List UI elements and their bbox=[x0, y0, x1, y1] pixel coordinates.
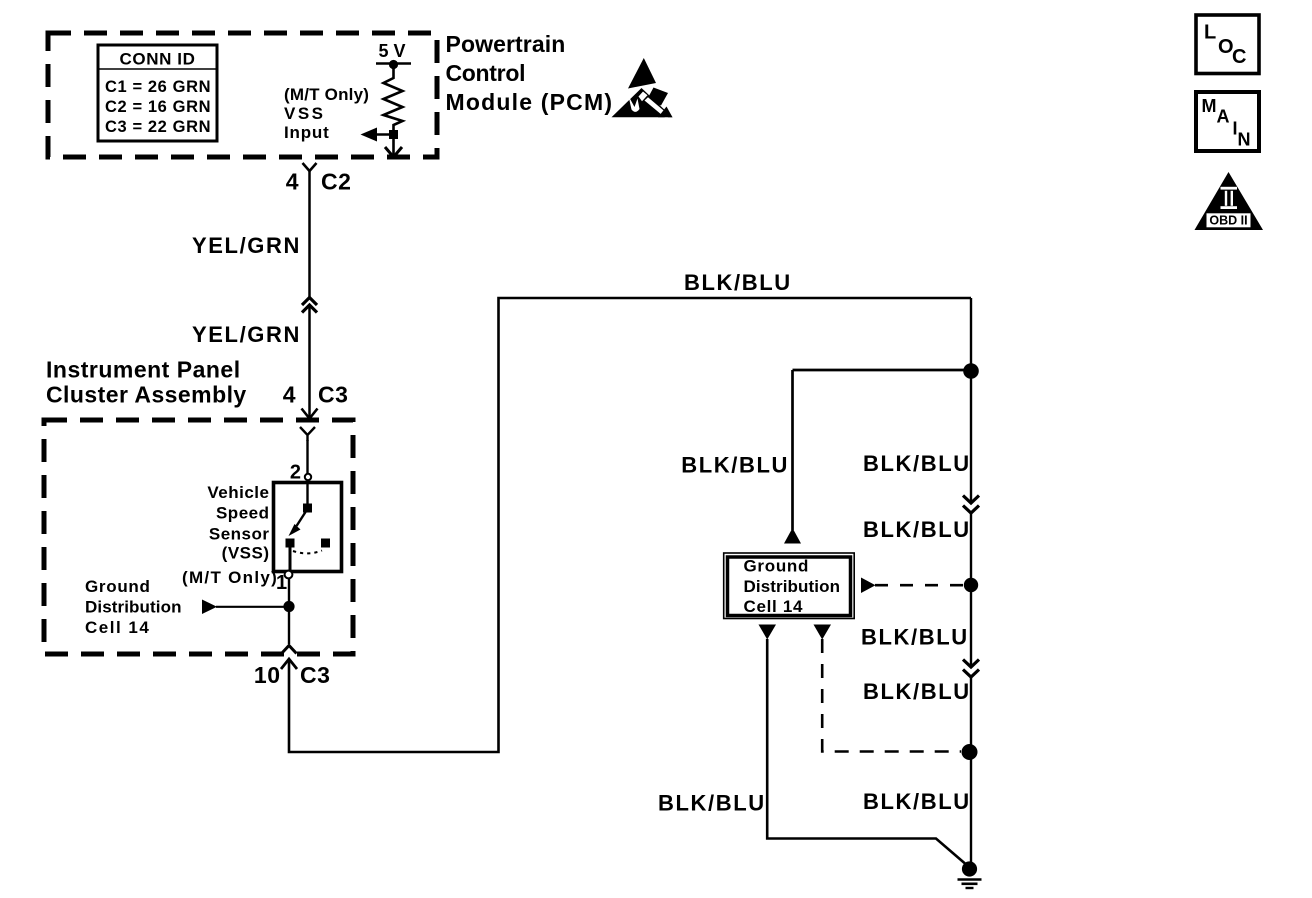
svg-text:Control: Control bbox=[446, 60, 526, 86]
junction J1 bbox=[963, 363, 979, 379]
svg-text:C2 = 16 GRN: C2 = 16 GRN bbox=[105, 98, 211, 116]
svg-text:BLK/BLU: BLK/BLU bbox=[658, 791, 766, 816]
svg-text:BLK/BLU: BLK/BLU bbox=[863, 679, 971, 704]
arrowhead up out of cluster bbox=[281, 659, 297, 669]
M/T Only VSS Input text bbox=[284, 85, 369, 142]
junction J4 bbox=[962, 744, 978, 760]
svg-text:BLK/BLU: BLK/BLU bbox=[863, 451, 971, 476]
svg-text:Vehicle: Vehicle bbox=[207, 483, 269, 502]
svg-text:L: L bbox=[1204, 22, 1216, 44]
svg-text:Sensor: Sensor bbox=[209, 525, 270, 544]
wire PCM pin4 down bbox=[308, 171, 311, 299]
pin 4 C3 connector bbox=[283, 382, 349, 408]
svg-text:(VSS): (VSS) bbox=[222, 544, 270, 563]
svg-text:OBD II: OBD II bbox=[1209, 214, 1247, 228]
inline connector break right bus (lower) bbox=[963, 660, 979, 678]
MAIN badge bbox=[1196, 92, 1259, 151]
svg-text:Instrument Panel: Instrument Panel bbox=[46, 357, 241, 383]
svg-text:BLK/BLU: BLK/BLU bbox=[861, 625, 969, 650]
Ground Distribution Cell 14 box bbox=[724, 553, 855, 619]
svg-text:A: A bbox=[1217, 107, 1230, 127]
svg-text:1: 1 bbox=[276, 572, 287, 594]
svg-text:(M/T Only): (M/T Only) bbox=[284, 85, 369, 104]
Y connector inside cluster bbox=[300, 427, 315, 441]
svg-text:C1 = 26 GRN: C1 = 26 GRN bbox=[105, 78, 211, 96]
svg-text:4: 4 bbox=[283, 382, 296, 408]
svg-text:10: 10 bbox=[254, 662, 281, 688]
pin 2 terminal circle bbox=[305, 474, 311, 480]
PCM label bbox=[446, 31, 614, 115]
wire W4 from pin10 down right and up to top BLK/BLU run bbox=[289, 298, 971, 752]
right vertical bus wire lower bbox=[970, 677, 972, 865]
junction J2 bbox=[283, 601, 294, 612]
inline connector break (chevrons up) bbox=[302, 298, 317, 313]
arrowhead into cluster (down) bbox=[302, 409, 318, 419]
OBD II badge bbox=[1195, 172, 1264, 230]
Ground Distribution Cell 14 text (cluster) bbox=[85, 577, 182, 637]
inline connector break right bus (upper) bbox=[963, 496, 979, 514]
wire to instrument cluster bbox=[308, 306, 311, 418]
VSS Input arrow bbox=[361, 128, 399, 142]
resistor R1 (VSS pull-up) bbox=[384, 66, 403, 156]
connector chevron at cluster exit bbox=[282, 646, 297, 654]
svg-text:Module (PCM): Module (PCM) bbox=[446, 89, 614, 115]
arrow from GD box to bus (dashed) bbox=[861, 578, 963, 594]
svg-text:Speed: Speed bbox=[216, 504, 270, 523]
svg-text:BLK/BLU: BLK/BLU bbox=[863, 789, 971, 814]
solid wire from left GD arrow down to ground bbox=[767, 639, 968, 867]
instrument cluster box bbox=[44, 420, 353, 654]
svg-text:C2: C2 bbox=[321, 169, 351, 195]
branch wire to ground distribution (up arrow) bbox=[784, 370, 966, 544]
svg-text:VSS: VSS bbox=[284, 104, 326, 123]
svg-text:Distribution: Distribution bbox=[85, 598, 182, 617]
svg-text:Ground: Ground bbox=[85, 577, 151, 596]
GD box bottom arrows bbox=[759, 625, 832, 640]
wire pin1 down bbox=[288, 578, 290, 644]
svg-text:N: N bbox=[1238, 130, 1251, 150]
VSS switch box bbox=[274, 483, 342, 572]
VSS text bbox=[207, 483, 269, 563]
svg-text:CONN ID: CONN ID bbox=[120, 50, 196, 69]
LOC badge bbox=[1196, 15, 1259, 74]
arrowhead out of PCM (down) bbox=[385, 147, 402, 157]
CONN ID table bbox=[98, 45, 217, 141]
svg-text:5 V: 5 V bbox=[378, 41, 405, 61]
Instrument Panel Cluster Assembly label bbox=[46, 357, 247, 408]
svg-text:Powertrain: Powertrain bbox=[446, 31, 566, 57]
svg-text:YEL/GRN: YEL/GRN bbox=[192, 322, 301, 347]
svg-text:Cluster Assembly: Cluster Assembly bbox=[46, 382, 247, 408]
svg-text:2: 2 bbox=[290, 462, 301, 484]
svg-text:Cell 14: Cell 14 bbox=[85, 618, 150, 637]
svg-text:Input: Input bbox=[284, 123, 330, 142]
svg-text:BLK/BLU: BLK/BLU bbox=[863, 517, 971, 542]
wire to VSS pin 2 bbox=[306, 440, 308, 475]
svg-text:BLK/BLU: BLK/BLU bbox=[684, 270, 792, 295]
pin 1 terminal circle bbox=[285, 571, 293, 579]
right vertical bus wire mid bbox=[970, 513, 972, 667]
5V supply rail bbox=[376, 41, 411, 69]
svg-text:C3: C3 bbox=[318, 382, 348, 408]
svg-text:Cell 14: Cell 14 bbox=[744, 597, 804, 616]
svg-text:C3 = 22 GRN: C3 = 22 GRN bbox=[105, 118, 211, 136]
PCM module box U1 (Powertrain Control Module) bbox=[48, 33, 437, 157]
VSS switch internals bbox=[286, 484, 331, 571]
svg-text:Distribution: Distribution bbox=[744, 577, 841, 596]
svg-text:C: C bbox=[1232, 46, 1246, 68]
ground G1 bbox=[958, 861, 982, 888]
svg-text:(M/T Only): (M/T Only) bbox=[182, 568, 278, 587]
svg-text:BLK/BLU: BLK/BLU bbox=[681, 453, 789, 478]
svg-text:YEL/GRN: YEL/GRN bbox=[192, 233, 301, 258]
svg-text:Ground: Ground bbox=[744, 557, 810, 576]
pin 10 C3 connector bbox=[254, 662, 331, 688]
ground distribution arrow (left, in cluster) bbox=[202, 600, 288, 615]
svg-text:M: M bbox=[1202, 96, 1217, 116]
svg-text:C3: C3 bbox=[300, 662, 330, 688]
ESD symbol (electrostatic discharge triangle) bbox=[612, 58, 673, 119]
pin 4 C2 connector bbox=[286, 163, 352, 195]
junction J3 bbox=[964, 578, 978, 592]
right vertical bus wire upper bbox=[970, 298, 972, 503]
svg-text:4: 4 bbox=[286, 169, 299, 195]
dashed wire from right GD arrow to bus bbox=[822, 639, 961, 752]
